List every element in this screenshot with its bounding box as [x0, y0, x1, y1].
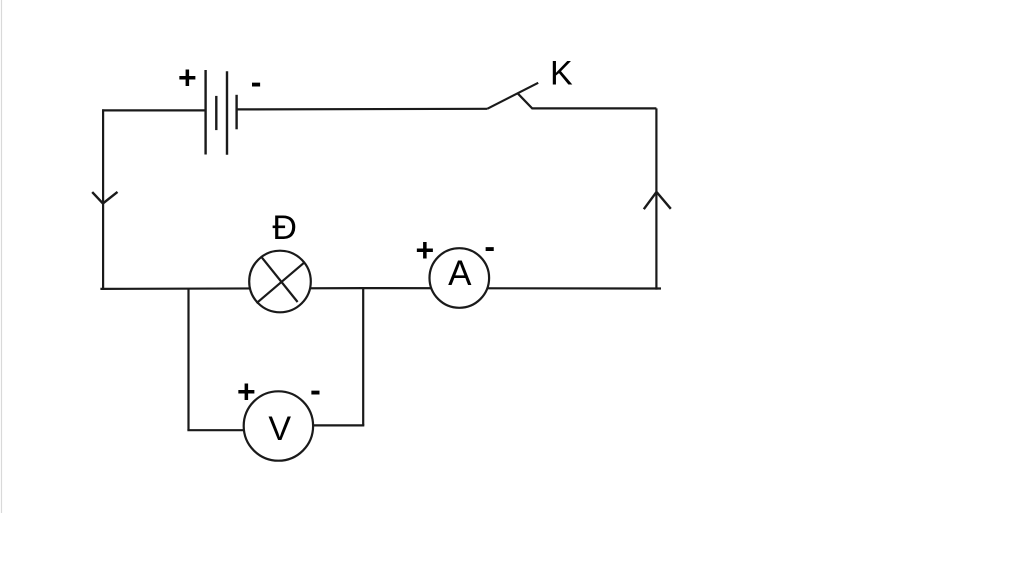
- lamp D cross line 2: [257, 263, 304, 303]
- wire middle horizontal: [100, 287, 661, 290]
- svg-text:V: V: [268, 410, 291, 448]
- voltmeter V circle: [244, 391, 313, 460]
- lamp D circle: [249, 251, 311, 313]
- ammeter A circle: [430, 248, 490, 308]
- lamp D cross line 1: [262, 257, 298, 302]
- faint page edge line: [1, 0, 3, 513]
- svg-text:-: -: [310, 372, 321, 408]
- svg-text:-: -: [251, 64, 262, 100]
- voltmeter bottom-right wire: [305, 424, 364, 426]
- switch K blade: [487, 83, 538, 109]
- battery: long plate (+) left: [204, 70, 206, 155]
- svg-text:K: K: [550, 55, 573, 93]
- svg-text:+: +: [178, 59, 197, 95]
- svg-text:Đ: Đ: [272, 209, 297, 247]
- svg-text:A: A: [448, 254, 472, 293]
- voltmeter branch left vertical: [187, 289, 189, 430]
- battery: long plate: [226, 71, 228, 154]
- wire top-left (battery + to left corner): [102, 109, 205, 111]
- wire top-right (battery - to switch): [237, 108, 488, 111]
- voltmeter bottom-left wire: [187, 429, 252, 431]
- battery: short plate (-) right: [235, 95, 237, 130]
- switch K right contact lead: [518, 93, 657, 108]
- battery: short plate: [215, 96, 217, 130]
- svg-text:+: +: [415, 232, 434, 268]
- svg-text:+: +: [237, 374, 256, 410]
- wire left vertical: [102, 109, 104, 289]
- current arrow (up) on right wire: [644, 192, 671, 209]
- current arrow (down) on left wire: [92, 192, 117, 204]
- voltmeter branch right vertical: [362, 288, 364, 425]
- wire right vertical: [655, 108, 657, 289]
- svg-text:-: -: [484, 228, 495, 264]
